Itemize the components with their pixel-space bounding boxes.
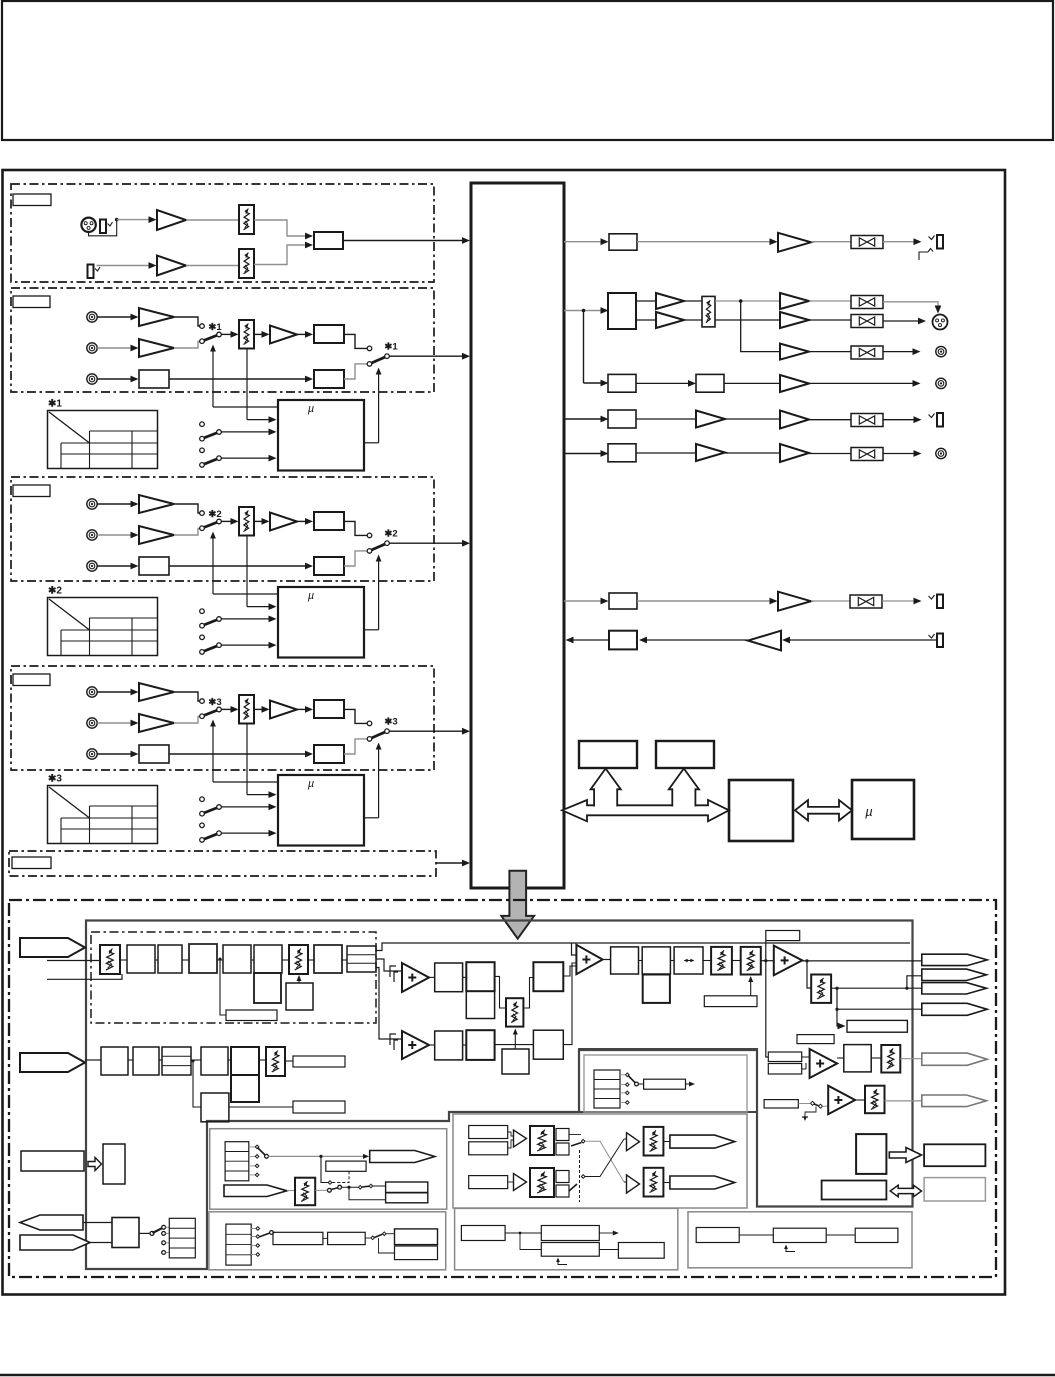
interface block xyxy=(822,1181,887,1200)
send amp xyxy=(778,592,811,611)
row8: effects return xyxy=(929,634,935,638)
svg-text:✱1: ✱1 xyxy=(208,322,222,333)
row5 amp b xyxy=(780,411,809,429)
RCA input 1 (2) xyxy=(87,499,97,509)
sum fader F xyxy=(506,998,523,1026)
svg-text:✱2: ✱2 xyxy=(208,509,221,520)
svg-text:✱3: ✱3 xyxy=(48,774,62,785)
switch control riser (1) xyxy=(212,347,214,408)
rect feeding fader D2 xyxy=(704,996,757,1007)
wire amp2 to switch lever xyxy=(174,717,200,724)
main amp L xyxy=(656,293,684,309)
B2 ins square 1b xyxy=(556,1143,569,1155)
block B2 (3) xyxy=(139,745,169,763)
block row1 xyxy=(609,234,637,250)
panel B-top border xyxy=(579,1049,757,1112)
svg-text:✱3: ✱3 xyxy=(208,697,221,708)
C1 block 3b xyxy=(395,1246,438,1260)
B2 ins square 2b xyxy=(556,1185,569,1197)
output select switch SW-B (3) xyxy=(367,721,372,726)
C2 block A xyxy=(461,1226,505,1241)
B2 fader out 1 xyxy=(644,1127,664,1156)
chain2 block 5 xyxy=(231,1047,259,1075)
block B3 (2) xyxy=(314,557,344,575)
C2 block B xyxy=(541,1226,599,1241)
strip label box xyxy=(12,857,51,869)
C3 block B xyxy=(773,1228,826,1242)
output amp E xyxy=(774,946,802,976)
mode switch 2 (2) xyxy=(200,635,205,640)
wire transformer R to XLR xyxy=(883,320,921,322)
channel fader (2) xyxy=(239,507,254,536)
C3 block A xyxy=(696,1228,739,1243)
wire amp A2 to fader xyxy=(186,265,239,267)
chain2 fader xyxy=(266,1047,285,1076)
wire B2 to amp B xyxy=(563,963,576,1045)
input select switch SW-A (3) xyxy=(200,699,205,704)
DSP io tag right xyxy=(20,1235,90,1250)
wire switch to fader xyxy=(221,708,234,710)
wire B3 to out-switch lever xyxy=(344,739,367,754)
control jog from SW-A (2) xyxy=(213,593,278,595)
fader X xyxy=(881,1045,900,1073)
wire section output to mixer xyxy=(389,730,466,732)
wire section output to mixer xyxy=(389,542,466,544)
wire B2 to B3 xyxy=(169,378,308,380)
block B1 (2) xyxy=(314,512,344,530)
transformer row7 xyxy=(850,595,882,608)
block A1 xyxy=(435,963,463,992)
wire to out amps xyxy=(715,300,780,302)
thin input strip section box xyxy=(9,851,436,876)
sum amp A2 xyxy=(402,1031,429,1059)
wire transformer L to XLR xyxy=(883,302,938,311)
wire amp1 to switch contact A xyxy=(174,504,200,513)
svg-text:µ: µ xyxy=(308,590,314,602)
row5 amp a xyxy=(696,411,725,428)
chain output top bypass line xyxy=(376,943,910,951)
wire rca1 to amp xyxy=(97,691,133,693)
microcontroller block U-1 xyxy=(278,400,364,471)
mu control riser to SW-B (1) xyxy=(378,370,380,443)
wire rca2 to amp xyxy=(97,722,133,724)
input section 1 box xyxy=(11,184,434,282)
fader G output distribution xyxy=(831,987,922,989)
chain2 thin rect 2 xyxy=(293,1101,345,1113)
RCA input 2 (2) xyxy=(87,530,97,540)
input section box (3) xyxy=(11,666,434,770)
wire rca1 to amp xyxy=(97,316,133,318)
wire fader to amp3 xyxy=(254,520,265,522)
B2 rect 1b xyxy=(469,1142,508,1155)
rec out transformer xyxy=(851,346,883,359)
block row5 xyxy=(608,410,636,428)
return amp (left) xyxy=(748,631,781,651)
B2 dashed link xyxy=(579,1150,581,1202)
tap down to thin block xyxy=(220,959,226,1015)
mode switch 2 (3) xyxy=(200,823,205,828)
row X input rects xyxy=(768,1052,801,1062)
fader D1 xyxy=(711,947,732,975)
svg-text:✱2: ✱2 xyxy=(48,586,62,597)
XLR input connector J1 xyxy=(81,218,95,232)
svg-text:µ: µ xyxy=(308,778,314,790)
B1 dashed control xyxy=(331,1171,349,1182)
block A1 row2 xyxy=(435,1031,463,1060)
chain2 tap to lower block xyxy=(193,1061,201,1107)
B2 amp in 2 xyxy=(514,1174,527,1191)
mode switch 1 (3) xyxy=(200,797,205,802)
chain1 block 5 sub xyxy=(254,973,281,1003)
footer rule xyxy=(0,1374,1055,1376)
B2 crossover wires xyxy=(569,1134,581,1136)
wire fader to block xyxy=(254,245,308,265)
chain2 block 4 xyxy=(201,1047,228,1075)
C2 reset arrow xyxy=(558,1259,567,1265)
block B1 xyxy=(533,962,563,991)
DSP input label 3 xyxy=(21,1151,84,1171)
input select switch SW-A (2) xyxy=(200,511,205,516)
line amp 1 (2) xyxy=(139,495,174,513)
chain2 block 2 xyxy=(133,1047,159,1075)
input section box (2) xyxy=(11,477,434,581)
wire amp E to P1 xyxy=(802,960,922,962)
fader G xyxy=(811,975,831,1003)
RCA input 1 (3) xyxy=(87,687,97,697)
RCA input 1 (1) xyxy=(87,312,97,322)
channel fader (1) xyxy=(239,320,254,349)
jack send output xyxy=(929,595,935,599)
B-top lever xyxy=(628,1076,636,1084)
wire B3 to out-switch lever xyxy=(344,364,367,379)
control jog from SW-A (1) xyxy=(213,406,278,408)
DSP cpu block xyxy=(856,1134,886,1174)
microcontroller block U-3 xyxy=(278,775,364,846)
wire switch to fader xyxy=(221,333,234,335)
C1 4-row block xyxy=(226,1224,251,1265)
chain1 fader F2 xyxy=(289,945,308,974)
delay rect right xyxy=(847,1020,907,1032)
wire rca2 to amp xyxy=(97,347,133,349)
panel C1 border xyxy=(209,1212,446,1270)
wire B1 to amp B xyxy=(563,966,576,976)
io block bottom-left xyxy=(83,1222,112,1224)
fader sense line to mu (2) xyxy=(246,536,248,607)
chain1 block 5 xyxy=(254,945,282,973)
line amp 2 (2) xyxy=(139,526,174,544)
master fader xyxy=(702,296,715,327)
head amp A1 xyxy=(157,210,186,230)
input select switch SW-A (1) xyxy=(200,324,205,329)
block B3 (1) xyxy=(314,370,344,388)
B2 rect 1a xyxy=(469,1126,508,1139)
output transformer L xyxy=(851,296,883,309)
wire block to mixer xyxy=(343,240,466,242)
block C3 (width) xyxy=(674,947,703,974)
mute ground symbol xyxy=(805,1107,816,1118)
chain1 fader F1 xyxy=(100,945,120,974)
sum amp Y xyxy=(828,1086,855,1115)
wire switch to fader xyxy=(221,520,234,522)
B1 small rect xyxy=(326,1161,366,1171)
block B3 (3) xyxy=(314,745,344,763)
block row8 xyxy=(609,631,637,650)
4-way block bottom-left xyxy=(169,1218,195,1258)
wire strip to mixer xyxy=(436,862,466,864)
wire J3 to amp xyxy=(97,265,152,267)
microcontroller block U-2 xyxy=(278,587,364,658)
out tag P2 xyxy=(922,969,987,980)
line out amp L xyxy=(780,293,809,309)
memory block K2 xyxy=(656,741,714,768)
B1 2-row block xyxy=(386,1182,428,1203)
grey arrow mixer to DSP xyxy=(501,871,534,939)
C1 block 3a xyxy=(395,1229,438,1245)
data bus double arrow xyxy=(562,800,729,821)
svg-text:✱2: ✱2 xyxy=(384,529,397,540)
row4: aux output xyxy=(584,382,604,384)
row6 amp b xyxy=(780,444,809,462)
head amp A2 xyxy=(157,256,186,276)
thin block under chain xyxy=(226,1010,277,1021)
wire amp1 to switch contact A xyxy=(174,692,200,701)
wire fader F to B1 xyxy=(523,978,533,1009)
bus branch arrow up to K2 xyxy=(669,769,699,808)
C1 block 2 xyxy=(328,1232,366,1244)
fader D2 xyxy=(741,947,761,975)
port block right xyxy=(924,1144,985,1166)
RCA input 3 (3) xyxy=(87,749,97,759)
B1 fader xyxy=(295,1178,315,1206)
line amp 2 (3) xyxy=(139,714,174,732)
RCA input 3 (2) xyxy=(87,561,97,571)
rec out amp xyxy=(780,344,809,360)
wire fader to block xyxy=(254,220,308,236)
B2 ins square 1a xyxy=(556,1129,569,1141)
chain2 thin rect 1 xyxy=(293,1056,345,1067)
wire rca3 to block xyxy=(97,565,133,567)
chain2 block 3 xyxy=(162,1047,191,1075)
out tag P1 xyxy=(922,954,987,965)
B2 fader in 2 xyxy=(530,1168,554,1197)
post amp (3) xyxy=(270,701,297,719)
row7: effects send xyxy=(564,600,604,602)
C1 block 1 xyxy=(273,1232,323,1244)
DSP outer dash-dot box xyxy=(9,900,996,1277)
wire B2 to B3 xyxy=(169,753,308,755)
chain1 block 1 xyxy=(127,945,155,973)
B2 amp out 1 xyxy=(627,1133,640,1151)
C1 lever xyxy=(259,1233,271,1237)
DSP io tag left xyxy=(20,1215,83,1230)
chain2 lower block xyxy=(201,1093,229,1122)
RCA input 2 (1) xyxy=(87,343,97,353)
input section box (1) xyxy=(11,288,434,392)
fader sense line to mu (1) xyxy=(246,349,248,420)
sum amp X xyxy=(810,1049,838,1078)
fader Y xyxy=(865,1086,885,1114)
switch control riser (2) xyxy=(212,534,214,595)
out tag P6 xyxy=(922,1095,987,1107)
input fader VR2 xyxy=(239,249,254,278)
input fader VR1 xyxy=(239,205,254,234)
B2 out tag 1 xyxy=(670,1135,735,1148)
phone jack input J3 xyxy=(95,267,100,271)
memory block K1 xyxy=(579,741,637,768)
mu output to SW-B riser (1) xyxy=(364,442,379,444)
chain2 block 1 xyxy=(101,1047,128,1075)
B2 fader in 1 xyxy=(530,1126,554,1155)
B1 riser to bypass switch xyxy=(321,1156,328,1182)
out tag P4 xyxy=(922,1003,987,1015)
wire amp2 to switch lever xyxy=(174,529,200,536)
mu control riser to SW-B (3) xyxy=(378,745,380,818)
hollow arrow cpu to port xyxy=(889,1148,921,1163)
branch down to row4 xyxy=(583,311,585,384)
block row2 xyxy=(608,293,636,329)
wire A2 to fader F xyxy=(495,976,506,1008)
wire section output to mixer xyxy=(389,355,466,357)
DSP block left column xyxy=(103,1144,125,1184)
line out amp R xyxy=(780,312,809,328)
line amp 1 (1) xyxy=(139,308,174,326)
B1 bypass lever xyxy=(331,1188,339,1190)
transformer row6 xyxy=(851,448,883,461)
double arrow K3-K4 xyxy=(795,800,852,820)
B2 out tag 2 xyxy=(670,1176,735,1189)
channel fader (3) xyxy=(239,695,254,724)
block B2 row2 xyxy=(533,1030,563,1059)
branch to row3 amp xyxy=(741,301,780,352)
row2: main output xyxy=(564,310,604,312)
B2 amp in 1 xyxy=(514,1130,527,1147)
wire J1/J2 to amp xyxy=(117,219,151,221)
block row4 a xyxy=(608,374,636,392)
outer diagram frame xyxy=(3,170,1006,1295)
hollow double arrow interface xyxy=(890,1185,921,1197)
selector switch bottom-left xyxy=(150,1231,154,1235)
mode switch 1 (1) xyxy=(200,422,205,427)
port block right 2 xyxy=(924,1178,985,1201)
block6 feeding fader F2 xyxy=(286,983,313,1010)
small hollow arrow into block xyxy=(88,1158,102,1171)
wire B3 to out-switch lever xyxy=(344,551,367,566)
sum block section 1 xyxy=(314,232,343,249)
out tag P5 xyxy=(922,1053,987,1065)
phone jack input J2 xyxy=(108,222,113,226)
block C2 xyxy=(642,947,670,974)
mu output to SW-B riser (2) xyxy=(364,629,379,631)
B1 selector lever xyxy=(258,1148,266,1156)
block B2 (1) xyxy=(139,370,169,388)
B-top rect xyxy=(644,1079,686,1089)
B1 bus wire xyxy=(268,1155,367,1157)
section label box 2 xyxy=(13,485,50,497)
mode switch 2 (1) xyxy=(200,448,205,453)
wire B2 to B3 xyxy=(169,565,308,567)
wire rca3 to block xyxy=(97,378,133,380)
wire rca2 to amp xyxy=(97,534,133,536)
wire to RCA rec out xyxy=(883,351,916,353)
central mixer bus block xyxy=(471,183,564,888)
section label box 3 xyxy=(13,674,50,686)
row6: monitor output 2 xyxy=(564,453,604,455)
chain output to sum amp A2 xyxy=(376,968,402,1040)
main amp R xyxy=(656,312,684,328)
line amp 2 (1) xyxy=(139,339,174,357)
block B1 (1) xyxy=(314,325,344,343)
line amp 1 (3) xyxy=(139,683,174,701)
chain1 block 7 xyxy=(314,945,342,973)
section label box 1 xyxy=(13,296,50,308)
chain output to sum amp A1 xyxy=(376,959,402,971)
block row4 b xyxy=(696,374,724,392)
block B1 (3) xyxy=(314,700,344,718)
panel B2 border xyxy=(453,1114,747,1208)
wire amp2 to switch lever xyxy=(174,342,200,349)
chain1 block 2 xyxy=(158,945,182,973)
chain2 block 5 sub xyxy=(231,1075,259,1102)
transformer row5 xyxy=(851,414,883,427)
panel B1 border xyxy=(210,1129,447,1210)
RCA output row4 xyxy=(936,378,946,388)
mu control riser to SW-B (2) xyxy=(378,557,380,630)
B1 out tag xyxy=(370,1151,435,1163)
wire rca1 to amp xyxy=(97,503,133,505)
section 1 label box xyxy=(13,194,51,206)
B2 rect 2 xyxy=(469,1176,508,1189)
block B2 (2) xyxy=(139,557,169,575)
C2 block C xyxy=(541,1243,599,1257)
fader line into mu (1) xyxy=(247,419,272,421)
fader sense line to mu (3) xyxy=(246,724,248,795)
small double arrow glyph in block C3 xyxy=(685,960,694,962)
block row7 xyxy=(609,593,637,609)
RCA input 3 (1) xyxy=(87,374,97,384)
DSP main box A outline xyxy=(86,921,913,1270)
jack output row5 xyxy=(929,414,935,418)
row4 amp xyxy=(780,375,809,392)
post amp (1) xyxy=(270,326,297,344)
B2 ins square 2a xyxy=(556,1171,569,1183)
output select switch SW-B (1) xyxy=(367,346,372,351)
mode switch 1 (2) xyxy=(200,609,205,614)
DSP input tag 2 xyxy=(20,1053,85,1072)
dist vertical feed xyxy=(766,941,769,1057)
block A3 xyxy=(466,991,494,1018)
bus branch arrow up to K1 xyxy=(591,769,621,808)
block row6 xyxy=(608,444,636,462)
chain2 input wire xyxy=(85,1059,101,1061)
chain1 output stack xyxy=(347,946,376,972)
XLR main output xyxy=(933,315,948,330)
B1 in tag xyxy=(224,1185,287,1197)
block under fader F xyxy=(502,1049,529,1074)
B2 fader out 2 xyxy=(644,1168,664,1197)
isolation transformer row1 xyxy=(851,236,883,249)
out tag P3 xyxy=(922,983,987,994)
drop to fader G xyxy=(807,961,811,988)
panel C3 border xyxy=(688,1212,912,1268)
micro block K4 xyxy=(852,780,914,839)
switch control riser (3) xyxy=(212,722,214,783)
block A2 xyxy=(466,962,494,991)
wire B1 to out-switch contact xyxy=(344,709,367,723)
small rect H xyxy=(797,1035,834,1044)
C3 block C xyxy=(855,1228,898,1242)
wire amp A1 to fader xyxy=(186,219,239,221)
row5: monitor output xyxy=(564,418,604,420)
